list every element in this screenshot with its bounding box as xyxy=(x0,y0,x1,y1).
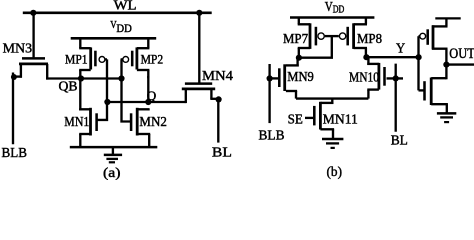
node Y junction (dot) xyxy=(363,54,369,60)
node OUT junction (dot) xyxy=(443,62,449,68)
svg-text:DD: DD xyxy=(116,21,132,35)
transistor MN2 xyxy=(131,108,150,136)
wire MP7-MP8 gate tie xyxy=(325,35,339,37)
svg-text:MP1: MP1 xyxy=(65,51,88,66)
svg-text:MP8: MP8 xyxy=(357,31,382,46)
wire BL vertical xyxy=(217,99,219,142)
wire VDD rail (cell) xyxy=(71,37,157,40)
wire VDD rail (b) xyxy=(290,16,374,19)
transistor MP8 xyxy=(339,18,367,57)
ground (b out) xyxy=(437,113,456,122)
svg-text:BL: BL xyxy=(212,145,232,160)
svg-text:MN4: MN4 xyxy=(202,68,233,83)
svg-text:SE: SE xyxy=(288,112,303,127)
svg-text:MN2: MN2 xyxy=(139,114,167,129)
wire MN4 to BL xyxy=(210,98,218,100)
svg-text:BL: BL xyxy=(391,133,408,148)
wire MP2 drain column to Q (node Q column upper) xyxy=(147,76,149,103)
svg-text:MN11: MN11 xyxy=(323,111,358,126)
svg-text:MN3: MN3 xyxy=(3,42,32,57)
svg-text:WL: WL xyxy=(114,0,137,14)
wire OUT xyxy=(446,63,474,65)
wire QB column (MP1 drain to MN1 drain) xyxy=(79,79,81,111)
node BL gate junction (dot) xyxy=(393,75,399,81)
transistor MN11 xyxy=(305,99,334,139)
transistor inverter PMOS xyxy=(419,18,448,62)
wire tail rail xyxy=(296,97,368,99)
node Q column junction (dot) xyxy=(145,99,151,105)
wire VDD stub (inverter) xyxy=(435,17,460,19)
transistor MN4 xyxy=(182,84,215,104)
wire BL vertical (b) xyxy=(395,64,397,132)
wire gate tie to MP7 drain xyxy=(299,36,332,58)
wire Y node xyxy=(366,56,419,58)
node BL junction (dot) xyxy=(216,96,222,102)
wire MN2 source to ground rail xyxy=(148,134,150,147)
wire BLB vertical xyxy=(12,73,14,145)
svg-text:OUT: OUT xyxy=(449,46,474,62)
svg-text:Q: Q xyxy=(147,88,157,103)
svg-text:QB: QB xyxy=(59,79,78,94)
label VDD (cell) xyxy=(110,20,132,35)
svg-text:MN9: MN9 xyxy=(287,69,314,84)
label VDD (b) xyxy=(325,0,345,16)
wire WL xyxy=(23,12,212,15)
transistor inverter NMOS xyxy=(419,62,448,113)
transistor MP7 xyxy=(298,18,325,58)
node BLB gate junction (dot) xyxy=(267,75,273,81)
node WL junction left (dot) xyxy=(30,10,36,16)
wire MN4 gate from WL xyxy=(198,13,200,83)
ground (b tail) xyxy=(322,139,343,148)
wire MN3 source to BLB xyxy=(12,75,22,77)
node Q gate junction (dot) xyxy=(104,99,110,105)
transistor MN3 xyxy=(19,58,48,79)
svg-text:BLB: BLB xyxy=(259,128,285,143)
svg-text:MP2: MP2 xyxy=(141,51,164,66)
wire QB (node QB) xyxy=(46,77,121,79)
node WL junction right (dot) xyxy=(196,10,202,16)
svg-text:BLB: BLB xyxy=(2,146,28,161)
svg-text:MP7: MP7 xyxy=(283,31,308,46)
transistor MN10 xyxy=(367,57,403,99)
wire ground rail (cell) xyxy=(70,146,158,149)
node MP7 drain junction (dot) xyxy=(296,55,302,61)
ground (cell) xyxy=(104,147,122,162)
wire inverter input line xyxy=(417,36,419,90)
transistor MN9 xyxy=(268,58,299,99)
svg-text:DD: DD xyxy=(333,5,345,16)
node QB column junction (dot) xyxy=(78,75,84,81)
svg-text:V: V xyxy=(325,0,333,14)
transistor MP1 xyxy=(79,38,107,78)
svg-text:MN10: MN10 xyxy=(349,69,379,84)
svg-text:(a): (a) xyxy=(103,166,121,180)
svg-text:(b): (b) xyxy=(327,165,343,180)
transistor MN1 xyxy=(79,108,96,136)
wire Q (node Q) xyxy=(105,101,186,103)
wire gate line left inverter (MP1/MN1 gates to Q) xyxy=(98,59,108,120)
node QB to MP2/MN2 gate junction (dot) xyxy=(118,75,124,81)
svg-text:MN1: MN1 xyxy=(64,114,89,129)
wire BLB vertical (b) xyxy=(268,64,270,123)
wire MN1 source to ground rail xyxy=(79,134,81,147)
node BLB junction (dot) xyxy=(11,74,17,80)
node inverter input junction (dot) xyxy=(416,54,422,60)
wire MN3 gate from WL xyxy=(32,13,34,58)
wire gate line right inverter (MP2/MN2 gates to QB) xyxy=(122,59,132,121)
svg-text:Y: Y xyxy=(396,42,405,57)
transistor MP2 xyxy=(121,38,150,78)
